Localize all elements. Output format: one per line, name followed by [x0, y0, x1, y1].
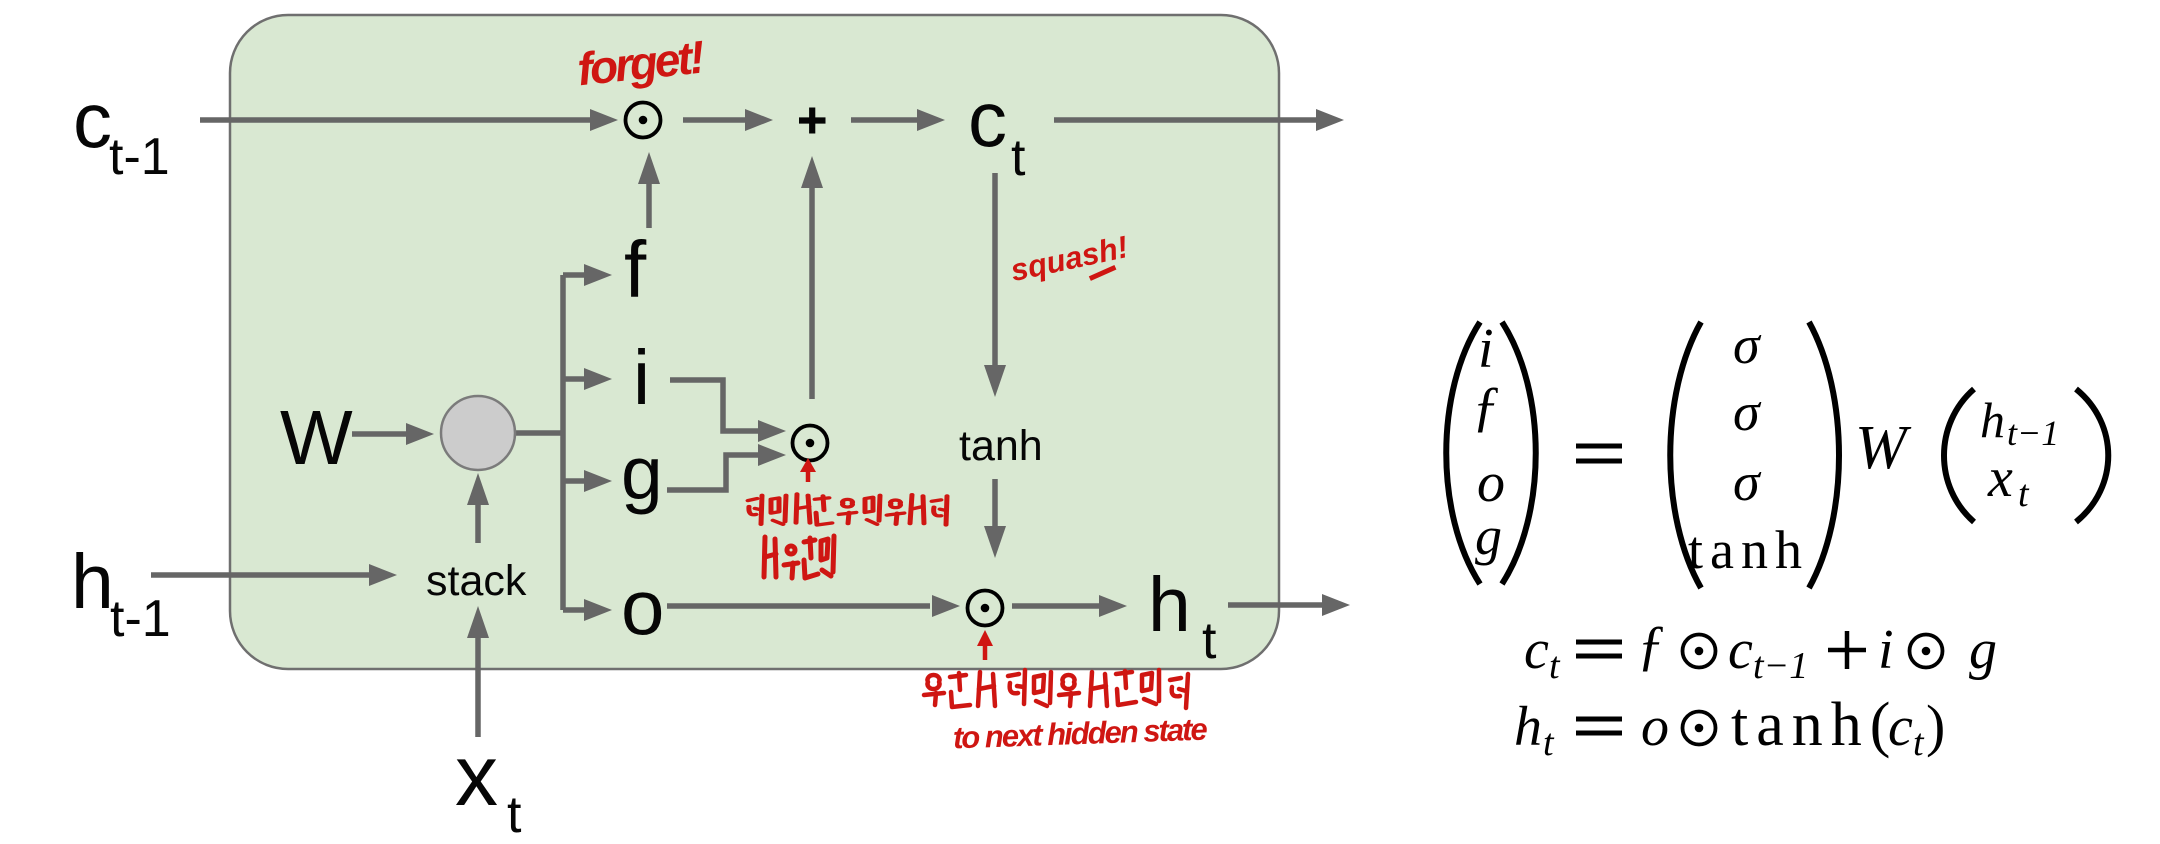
red arrow under multiply3 — [977, 630, 993, 660]
wire x_t up to stack — [467, 606, 489, 737]
svg-text:g: g — [621, 431, 663, 515]
svg-text:h: h — [71, 539, 114, 625]
wire g to multiply2 — [667, 455, 760, 490]
wire c_{t-1} to elementwise-multiply — [200, 109, 618, 131]
gate multiply node 3 (o⊙tanh) — [968, 591, 1003, 626]
svg-text:tanh: tanh — [959, 422, 1043, 470]
red annotation to next hidden state — [952, 712, 1208, 756]
svg-text:c: c — [968, 75, 1007, 163]
svg-text:σ: σ — [1733, 315, 1762, 375]
equation sigma vector paren right — [1809, 322, 1839, 588]
equation vector lhs paren right — [1502, 322, 1536, 584]
svg-text:W: W — [280, 395, 353, 481]
wire h_t out right — [1228, 594, 1350, 616]
wire tanh down to multiply3 — [984, 479, 1006, 558]
red annotation squash! — [1007, 229, 1132, 297]
svg-text:x: x — [1987, 447, 2013, 509]
plus node — [799, 108, 826, 134]
equation input vector paren left — [1944, 389, 1974, 522]
svg-text:t−1: t−1 — [1753, 645, 1808, 687]
svg-text:g: g — [1969, 619, 1997, 681]
svg-text:σ: σ — [1733, 382, 1762, 442]
equation vector lhs paren left — [1446, 322, 1480, 584]
wire c_t down to tanh — [984, 173, 1006, 397]
wire plus to c_t — [851, 109, 945, 131]
svg-text:t: t — [1202, 612, 1217, 670]
node c_t label — [968, 75, 1026, 187]
svg-text:i: i — [633, 335, 650, 421]
svg-text:o: o — [621, 563, 664, 651]
equation vector lhs entries — [1472, 318, 1505, 566]
equation sigma entries — [1733, 315, 1762, 512]
svg-text:t: t — [507, 786, 522, 844]
equation c_t line — [1524, 615, 1997, 687]
svg-text:x: x — [455, 728, 498, 824]
svg-text:ƒ: ƒ — [1637, 615, 1665, 677]
wire o to multiply3 — [667, 595, 960, 617]
node c_{t-1} label — [73, 76, 170, 186]
wire multiply to plus — [683, 109, 773, 131]
svg-text:σ: σ — [1733, 452, 1762, 512]
wire f up to multiply — [638, 152, 660, 228]
node h_t label — [1148, 562, 1217, 670]
bracket arrowheads — [584, 264, 612, 621]
gate multiply node (forget ⊙) — [626, 103, 661, 138]
red korean annotation bottom — [924, 670, 1188, 708]
svg-text:W: W — [1855, 414, 1912, 482]
wire c_t out right — [1054, 109, 1344, 131]
svg-text:t: t — [1549, 645, 1561, 687]
equation h_{t-1} entry — [1980, 392, 2059, 453]
red korean annotation line 2 — [764, 536, 834, 578]
svg-text:f: f — [624, 225, 647, 314]
svg-text:h: h — [1980, 392, 2005, 448]
svg-text:t: t — [1913, 722, 1925, 764]
equation sigma vector paren left — [1670, 322, 1701, 588]
stack circle — [441, 396, 515, 470]
equation odot 3 — [1683, 712, 1716, 745]
svg-text:c: c — [1888, 696, 1913, 758]
red annotation forget! — [575, 30, 707, 95]
equation odot 2 — [1910, 635, 1943, 668]
equation x_t entry — [1987, 447, 2030, 515]
svg-text:tanh(: tanh( — [1731, 691, 1898, 759]
svg-text:to next hidden state: to next hidden state — [952, 712, 1208, 756]
svg-text:t: t — [2018, 473, 2030, 515]
svg-text:h: h — [1148, 562, 1191, 648]
red korean annotation line 1 — [748, 494, 947, 525]
equation input vector paren right — [2076, 389, 2108, 522]
svg-text:): ) — [1926, 693, 1945, 758]
svg-text:t: t — [1543, 722, 1555, 764]
wire multiply3 to h_t — [1012, 595, 1127, 617]
svg-text:o: o — [1641, 696, 1669, 758]
wire h_{t-1} to stack — [151, 564, 397, 586]
svg-text:tanh: tanh — [1688, 520, 1809, 580]
wire i to multiply2 — [670, 380, 760, 431]
svg-text:c: c — [1524, 619, 1549, 681]
node h_{t-1} label — [71, 539, 171, 648]
svg-text:c: c — [73, 76, 112, 164]
svg-text:t-1: t-1 — [109, 128, 170, 186]
svg-text:o: o — [1477, 452, 1505, 514]
svg-text:t-1: t-1 — [110, 590, 171, 648]
svg-text:i: i — [1878, 619, 1894, 681]
equation equals 1 — [1576, 446, 1622, 461]
svg-text:ƒ: ƒ — [1472, 376, 1500, 438]
LSTM cell box — [230, 15, 1279, 669]
gate multiply node 2 (i⊙g) — [793, 426, 828, 461]
equation h_t line — [1514, 691, 1945, 764]
svg-text:t: t — [1011, 129, 1026, 187]
svg-text:h: h — [1514, 696, 1542, 758]
bracket wire from W-circle to gates — [515, 275, 586, 610]
svg-text:i: i — [1478, 318, 1494, 380]
wire multiply2 up to plus — [801, 156, 823, 399]
svg-text:t−1: t−1 — [2007, 413, 2059, 453]
svg-text:g: g — [1475, 506, 1502, 566]
node x_t label — [455, 728, 522, 844]
svg-text:c: c — [1728, 619, 1753, 681]
wire W to stack circle — [352, 423, 434, 445]
equation odot 1 — [1683, 635, 1716, 668]
svg-text:stack: stack — [426, 557, 527, 605]
red arrow under multiply2 — [800, 458, 816, 482]
wire stack to circle — [467, 473, 489, 543]
